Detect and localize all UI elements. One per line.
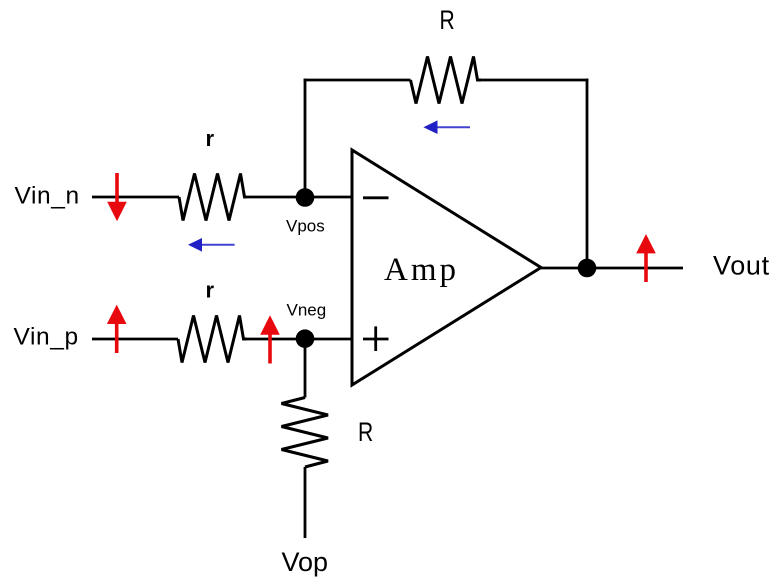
svg-text:Vneg: Vneg	[287, 300, 327, 319]
red voltage arrow at Vneg (up)	[260, 315, 280, 363]
wire Vin_p input segment	[92, 338, 178, 341]
op-amp U1 triangle	[352, 150, 541, 385]
node Vpos junction dot	[296, 188, 315, 207]
node output junction dot	[578, 259, 597, 278]
wire R2 to Vop terminal	[304, 467, 307, 538]
svg-text:Vop: Vop	[282, 547, 329, 577]
svg-text:Vpos: Vpos	[286, 217, 325, 236]
op-amp inverting input minus sign	[363, 196, 389, 199]
op-amp non-inverting input plus sign	[363, 326, 389, 351]
red voltage arrow at Vout (up)	[636, 234, 656, 282]
resistor R1 feedback	[411, 57, 482, 104]
svg-text:Vin_n: Vin_n	[15, 183, 80, 210]
red voltage arrow at Vin_p (up)	[107, 305, 127, 353]
resistor r2	[178, 316, 247, 363]
resistor R2 vertical	[282, 398, 329, 468]
wire Vin_n input segment	[92, 196, 179, 199]
svg-text:Vout: Vout	[713, 251, 770, 281]
blue current arrow feedback	[423, 120, 470, 134]
svg-text:r: r	[206, 278, 215, 303]
node Vneg junction dot	[296, 329, 315, 348]
wire feedback top left horizontal	[304, 79, 411, 82]
wire feedback vertical left	[304, 79, 307, 197]
wire r2 to Vneg node	[247, 338, 353, 341]
svg-text:r: r	[206, 126, 215, 151]
svg-text:Vin_p: Vin_p	[14, 324, 79, 351]
svg-text:Amp: Amp	[384, 252, 459, 288]
wire feedback vertical right down to output node	[586, 79, 589, 268]
wire feedback top right horizontal	[481, 79, 588, 82]
blue current arrow under r1	[188, 238, 235, 252]
wire Vneg node down to R2	[304, 339, 307, 398]
svg-text:R: R	[440, 5, 455, 35]
wire op-amp output to Vout	[541, 267, 683, 270]
resistor r1	[179, 174, 247, 221]
svg-text:R: R	[358, 418, 373, 448]
red voltage arrow at Vin_n (down)	[107, 173, 127, 221]
wire r1 to Vpos node	[247, 196, 353, 199]
